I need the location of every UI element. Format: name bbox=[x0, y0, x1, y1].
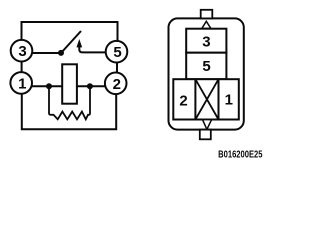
coil box bbox=[62, 64, 77, 103]
cavity 5 bbox=[186, 53, 226, 79]
wire switch row from terminal 3 bbox=[30, 52, 61, 54]
resistor R parallel zigzag bbox=[49, 87, 90, 120]
svg-text:3: 3 bbox=[202, 34, 210, 51]
svg-text:3: 3 bbox=[18, 43, 26, 60]
svg-text:1: 1 bbox=[225, 92, 233, 109]
wire stub 3-1 bbox=[21, 61, 23, 73]
junction dot switch bbox=[58, 50, 64, 56]
svg-text:2: 2 bbox=[113, 76, 121, 93]
svg-text:5: 5 bbox=[113, 44, 121, 61]
index triangle down bbox=[203, 120, 212, 130]
cavity 1 bbox=[219, 79, 233, 119]
terminal 3 bbox=[11, 40, 33, 62]
cavity 3 bbox=[186, 29, 226, 53]
svg-text:B016200E25: B016200E25 bbox=[218, 149, 262, 160]
svg-text:5: 5 bbox=[202, 58, 210, 75]
connector lock tab bottom bbox=[200, 130, 211, 140]
junction dot B bbox=[87, 83, 93, 89]
connector body outline bbox=[169, 18, 244, 129]
wire coil row left bbox=[30, 85, 62, 87]
wire bottom link 1-2 bbox=[22, 94, 116, 129]
wire top link 3-5 bbox=[22, 22, 118, 42]
switch blade bbox=[61, 31, 81, 53]
terminal 2 bbox=[105, 73, 127, 95]
blocked cavity X bbox=[195, 79, 218, 119]
wire coil row right bbox=[77, 85, 106, 87]
svg-text:1: 1 bbox=[18, 75, 26, 92]
terminal 1 bbox=[10, 72, 32, 94]
cavity row bottom bbox=[173, 79, 239, 119]
index triangle up bbox=[202, 21, 211, 28]
wire stub 5-2 bbox=[116, 62, 118, 73]
connector lock tab top bbox=[201, 10, 213, 19]
wire arrow stub to terminal 5 bbox=[79, 46, 106, 53]
junction dot A bbox=[46, 83, 52, 89]
svg-text:2: 2 bbox=[179, 93, 187, 110]
terminal 5 bbox=[106, 41, 128, 63]
cavity 2 bbox=[179, 79, 195, 119]
switch arrow bbox=[77, 40, 82, 47]
